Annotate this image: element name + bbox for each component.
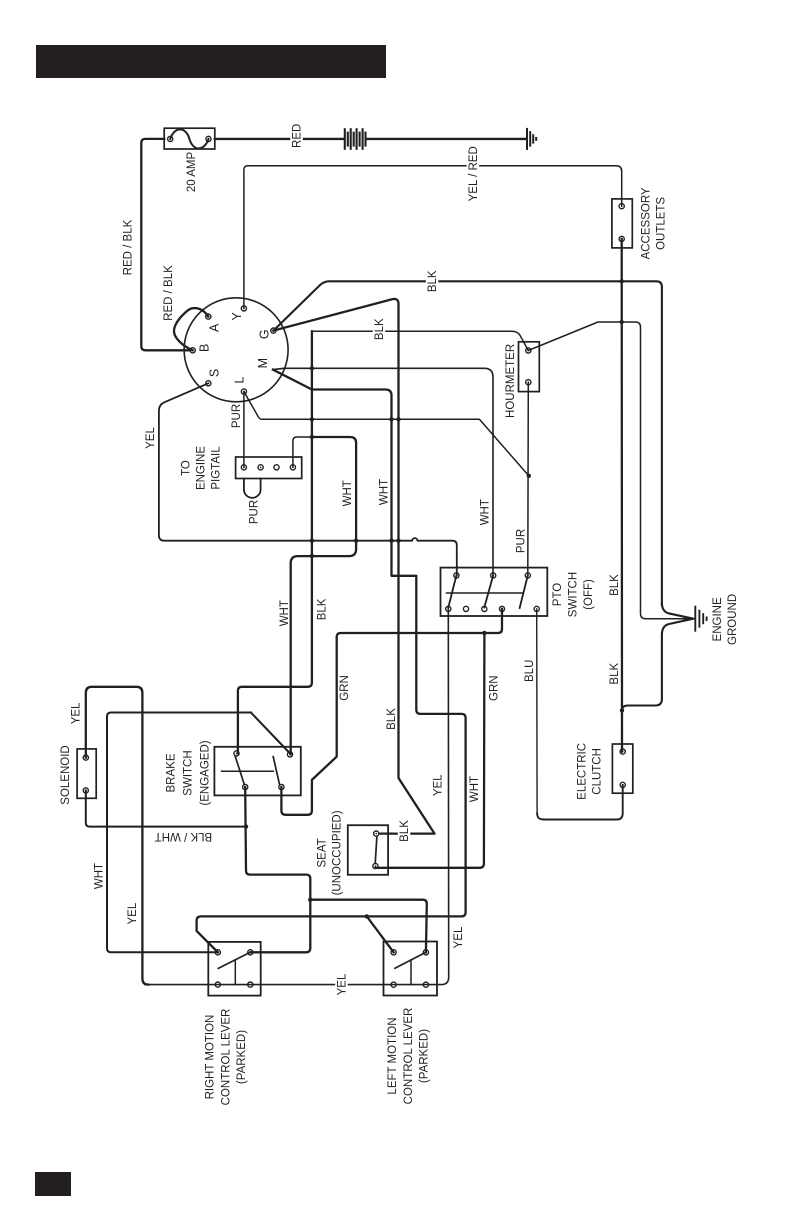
label WHT (M drop): [379, 479, 391, 505]
junction BLK rail / ground wire: [620, 708, 624, 712]
right lever blade: [218, 952, 250, 968]
wire WHT diagonal to brake switch: [251, 713, 290, 754]
seat blade: [375, 836, 377, 863]
label ACCESSORY OUTLETS: [641, 187, 668, 259]
pto link bar: [447, 592, 523, 594]
svg-text:WHT: WHT: [379, 479, 391, 505]
fuse terminal right: [206, 136, 211, 141]
svg-text:WHT: WHT: [342, 480, 354, 506]
junction hourmeter-net / accessory vertical: [620, 320, 624, 324]
wire M to right motion lever (WHT): [197, 370, 466, 953]
svg-text:BLK: BLK: [374, 318, 386, 340]
junction BLK/pigtail: [310, 435, 314, 439]
junction M-drop/PUR: [389, 417, 393, 421]
label RED / BLK (fuse wire): [123, 219, 135, 275]
svg-text:YEL: YEL: [337, 973, 349, 995]
svg-text:20 AMP: 20 AMP: [186, 152, 198, 193]
wire pigtail terminal 4 riser: [293, 437, 312, 467]
junction M-drop/YEL rail: [389, 539, 393, 543]
right lever terminal top-left: [215, 950, 220, 955]
pigtail terminal 4: [290, 465, 295, 470]
svg-text:BLK: BLK: [609, 663, 621, 685]
fuse terminal left: [168, 136, 173, 141]
fuse element curve: [170, 129, 208, 148]
junction WHT / lever branch: [365, 914, 369, 918]
svg-text:Y: Y: [230, 311, 244, 320]
right lever terminal top-right: [248, 950, 253, 955]
wire solenoid top to levers (YEL): [86, 687, 149, 985]
label YEL (between levers): [335, 973, 348, 997]
wire hourmeter to PTO (PUR): [527, 382, 530, 575]
pigtail terminal 1: [241, 465, 246, 470]
wire BLK net vertical to brake switch: [238, 331, 312, 753]
svg-text:WHT: WHT: [279, 600, 291, 626]
junction G-drop/YEL rail: [396, 539, 400, 543]
wire brake to levers (BLK/WHT): [245, 787, 310, 952]
pin label B: [197, 344, 211, 352]
pto terminal bottom 4: [499, 606, 504, 611]
label RED: [290, 123, 303, 149]
label BLK (rail lower): [609, 663, 621, 685]
svg-text:YEL: YEL: [127, 902, 139, 924]
label PUR (L wire): [231, 404, 243, 428]
brake terminal bottom-right: [279, 784, 284, 789]
pto terminal top 3: [525, 573, 530, 578]
wire G to BLK top rail: [273, 281, 662, 605]
junction BLK rail / top rail: [620, 279, 624, 283]
svg-text:RED: RED: [292, 124, 304, 148]
label BLU: [524, 660, 536, 682]
wire Y terminal to accessory outlets (YEL/RED): [244, 166, 622, 309]
junction BLK/PUR: [310, 417, 314, 421]
svg-text:BLK: BLK: [427, 270, 439, 292]
brake blade right: [273, 757, 279, 785]
pin label Y: [230, 311, 244, 320]
pin label M: [256, 358, 270, 368]
svg-text:YEL: YEL: [145, 427, 157, 449]
svg-text:RED / BLK: RED / BLK: [163, 265, 175, 321]
label WHT (solenoid side): [93, 863, 105, 889]
accessory outlets terminal 2: [619, 236, 624, 241]
label PTO SWITCH (OFF): [552, 572, 595, 617]
wire G down to seat (BLK): [273, 299, 434, 834]
wire A-B jumper hook (RED/BLK): [174, 308, 208, 350]
pto terminal bottom 3: [482, 606, 487, 611]
label PUR (PTO feed): [516, 529, 528, 553]
svg-text:SOLENOID: SOLENOID: [60, 745, 72, 804]
wire PTO to brake switch (GRN): [281, 609, 502, 815]
solenoid terminal 2: [83, 788, 88, 793]
hourmeter body: [519, 342, 540, 392]
pto blade 1: [448, 575, 456, 607]
left lever terminal top-left: [391, 950, 396, 955]
label WHT (M to PTO): [479, 499, 491, 525]
seat switch body: [348, 825, 388, 875]
title bar (solid black): [36, 45, 386, 78]
svg-text:A: A: [208, 323, 222, 332]
pto terminal bottom 5: [534, 606, 539, 611]
label WHT (jog): [342, 480, 354, 506]
pto switch body: [441, 568, 548, 616]
junction brake net split: [308, 898, 312, 902]
label YEL (S wire): [145, 427, 157, 449]
wire PTO to electric clutch (BLU): [536, 609, 538, 814]
ignition terminal L: [241, 389, 246, 394]
label YEL (PTO drop): [432, 774, 444, 796]
to-engine-pigtail connector body: [236, 457, 302, 479]
right motion lever body: [208, 942, 260, 996]
clutch terminal 2: [620, 782, 625, 787]
label TO ENGINE PIGTAIL: [181, 446, 223, 490]
label 20 AMP: [186, 152, 198, 193]
svg-text:YEL: YEL: [71, 702, 83, 724]
wire brake net to left lever: [310, 900, 427, 953]
pto terminal top 1: [454, 573, 459, 578]
brake terminal bottom-left: [243, 784, 248, 789]
svg-text:PUR: PUR: [516, 529, 528, 553]
label WHT (brake feed): [279, 600, 291, 626]
brake terminal top-right: [287, 752, 292, 757]
solenoid terminal 1: [83, 755, 88, 760]
svg-text:YEL / RED: YEL / RED: [468, 146, 480, 201]
label SEAT (UNOCCUPIED): [316, 810, 343, 895]
wire fuse left lead to RED/BLK vertical: [141, 139, 190, 350]
svg-text:GRN: GRN: [489, 675, 501, 701]
left lever link bar: [410, 960, 412, 985]
svg-text:G: G: [258, 329, 272, 339]
pin label A: [208, 323, 222, 332]
svg-text:BLK: BLK: [386, 708, 398, 730]
pto terminal bottom 2: [463, 606, 468, 611]
engine ground symbol: [694, 606, 696, 632]
wire fuse to battery (RED): [215, 138, 344, 140]
label RIGHT MOTION CONTROL LEVER (PARKED): [205, 1009, 248, 1106]
battery B1 plates: [344, 128, 346, 150]
ignition terminal B: [190, 348, 195, 353]
label BLK (seat wire): [386, 708, 398, 730]
pto terminal top 2: [491, 573, 496, 578]
wire thin BLK to hourmeter: [312, 331, 528, 350]
svg-text:BLK: BLK: [609, 574, 621, 596]
label BLK (rail upper): [609, 574, 621, 596]
wire GRN branch to seat: [375, 633, 484, 868]
pto terminal bottom 1: [446, 606, 451, 611]
pigtail jumper loop (PUR): [244, 479, 261, 498]
label HOURMETER: [505, 344, 517, 418]
wire branch to left lever terminal: [367, 916, 394, 952]
wire WHT to right lever: [107, 713, 251, 953]
ignition terminal A: [206, 314, 211, 319]
svg-text:M: M: [256, 358, 270, 368]
junction PUR / hourmeter drop: [527, 474, 531, 478]
svg-text:YEL: YEL: [432, 774, 444, 796]
brake blade left: [235, 757, 244, 785]
svg-text:GRN: GRN: [339, 675, 351, 701]
pin label L: [232, 376, 246, 383]
svg-text:WHT: WHT: [469, 776, 481, 802]
label BLK (seat lead): [398, 819, 411, 843]
wire M to PTO switch (WHT): [273, 368, 493, 575]
seat terminal top: [374, 831, 379, 836]
chassis ground symbol (top): [526, 128, 528, 150]
wire solenoid bottom (BLK/WHT): [86, 790, 246, 826]
label BLK (hourmeter feed): [373, 317, 386, 341]
svg-text:L: L: [232, 376, 246, 383]
label BRAKE SWITCH (ENGAGED): [165, 740, 211, 805]
pigtail terminal 2: [258, 465, 263, 470]
label YEL (drop lower): [453, 926, 465, 948]
brake switch body: [214, 747, 300, 796]
svg-text:BLK / WHT: BLK / WHT: [155, 830, 213, 842]
label GRN (right): [489, 675, 501, 701]
svg-text:RED / BLK: RED / BLK: [123, 219, 135, 275]
accessory outlets terminal 1: [619, 204, 624, 209]
left lever blade: [395, 952, 426, 968]
junction BLK/M-line: [310, 366, 314, 370]
label PUR (jumper): [249, 500, 261, 524]
pto blade 2: [484, 575, 493, 607]
svg-text:WHT: WHT: [93, 863, 105, 889]
junction BLK/WHT jog: [310, 554, 314, 558]
hourmeter terminal 2: [526, 380, 531, 385]
label BLK / WHT: [155, 830, 213, 842]
wire clutch bottom lead: [537, 785, 623, 820]
seat terminal bottom: [373, 863, 378, 868]
pigtail terminal 3: [274, 465, 279, 470]
label LEFT MOTION CONTROL LEVER (PARKED): [387, 1008, 430, 1105]
label YEL (solenoid): [71, 702, 83, 724]
label GRN (left): [339, 675, 351, 701]
svg-text:BLK: BLK: [399, 820, 411, 842]
svg-text:WHT: WHT: [479, 499, 491, 525]
label YEL / RED: [467, 145, 480, 203]
pin label G: [258, 329, 272, 339]
junction jog/YEL rail: [354, 539, 358, 543]
svg-text:PUR: PUR: [231, 404, 243, 428]
engine ground arrow kink: [622, 604, 693, 711]
label ENGINE GROUND: [712, 594, 739, 645]
svg-text:B: B: [197, 344, 211, 352]
solenoid body: [77, 749, 96, 798]
left lever terminal bottom-left: [391, 982, 396, 987]
label ELECTRIC CLUTCH: [577, 743, 604, 800]
wire battery to chassis ground: [367, 138, 526, 140]
svg-text:BLK: BLK: [317, 598, 329, 620]
wire S to PTO top (YEL rail): [159, 383, 457, 575]
pto blade 3 (open): [520, 575, 528, 608]
label RED / BLK (jumper): [163, 265, 175, 321]
ignition terminal S: [206, 381, 211, 386]
clutch terminal 1: [620, 749, 625, 754]
accessory outlets connector body: [612, 199, 632, 248]
left lever terminal top-right: [423, 950, 428, 955]
svg-text:YEL: YEL: [453, 926, 465, 948]
label BLK (brake feed): [317, 598, 329, 620]
label SOLENOID: [60, 745, 72, 804]
svg-text:HOURMETER: HOURMETER: [505, 344, 517, 418]
brake terminal top-left: [234, 751, 239, 756]
left lever terminal bottom-right: [423, 982, 428, 987]
page number block (bottom left): [35, 1172, 71, 1196]
wire hourmeter to ground drop: [528, 322, 694, 619]
junction BLK/YEL rail: [310, 539, 314, 543]
ignition terminal G: [271, 328, 276, 333]
ignition switch body (circle): [184, 298, 288, 402]
label BLK (top rail): [426, 269, 439, 293]
wire WHT jog to brake switch: [291, 437, 356, 754]
left motion lever body: [384, 942, 438, 996]
pin label S: [208, 369, 222, 377]
right lever link bar: [234, 961, 236, 985]
ignition terminal Y: [241, 306, 246, 311]
svg-text:BLU: BLU: [524, 660, 536, 682]
hourmeter terminal 1: [526, 348, 531, 353]
wire L kill line (PUR): [244, 392, 529, 476]
wire L to engine pigtail (PUR): [243, 392, 245, 468]
junction G-drop/PUR: [396, 417, 400, 421]
junction GRN branch: [482, 631, 486, 635]
junction solenoid/brake (BLK/WHT): [244, 824, 248, 828]
wire PTO to motion levers (YEL): [145, 609, 449, 985]
right lever terminal bottom-right: [248, 982, 253, 987]
fuse F1 20 AMP body: [164, 128, 215, 149]
brake link bar: [222, 770, 274, 772]
electric clutch body: [612, 744, 632, 793]
right lever terminal bottom-left: [215, 982, 220, 987]
wire accessory outlets down to electric clutch (BLK): [621, 239, 624, 752]
label YEL (lever feed left): [127, 902, 139, 924]
svg-text:S: S: [208, 369, 222, 377]
label WHT (lever feed): [469, 776, 481, 802]
svg-text:PUR: PUR: [249, 500, 261, 524]
